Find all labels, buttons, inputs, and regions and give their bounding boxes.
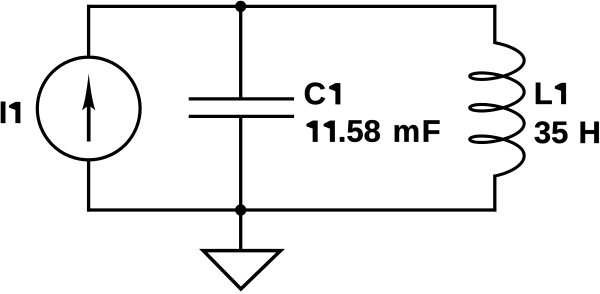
- label C1 value digit 8: [365, 120, 380, 142]
- inductor L1: [470, 43, 524, 176]
- label C1 letter C: [305, 83, 325, 105]
- label L1 letter L: [536, 83, 552, 104]
- node bottom junction dot: [235, 204, 246, 215]
- label L1 digit 1: [555, 83, 566, 104]
- wire ground stub: [239, 210, 242, 250]
- label I1 letter I: [1, 102, 5, 123]
- wire bottom rail: [87, 208, 496, 211]
- current source I1: [37, 57, 140, 160]
- label C1 value letter m: [395, 125, 419, 142]
- label L1 value digit 5: [552, 122, 567, 144]
- wire right vertical bottom: [493, 175, 496, 212]
- wire left vertical bottom: [87, 160, 90, 212]
- label C1 value digit 5: [347, 120, 362, 142]
- label C1 value digit 1 second: [324, 121, 335, 142]
- wire top rail: [87, 5, 496, 8]
- capacitor C1: [189, 99, 294, 116]
- label L1 value digit 3: [535, 121, 550, 143]
- label L1 value letter H: [581, 122, 599, 143]
- label C1 value digit 1 first: [307, 121, 318, 142]
- wire left vertical top: [87, 5, 90, 57]
- label I1 digit 1: [9, 102, 20, 123]
- label C1 value period: [340, 137, 344, 142]
- ground: [203, 251, 280, 289]
- wire capacitor branch top: [239, 6, 242, 99]
- label C1 value letter F: [424, 120, 440, 141]
- wire right vertical top: [493, 5, 496, 44]
- wire capacitor branch bottom: [239, 116, 242, 210]
- label C1 digit 1: [329, 83, 340, 104]
- node top junction dot: [235, 1, 246, 12]
